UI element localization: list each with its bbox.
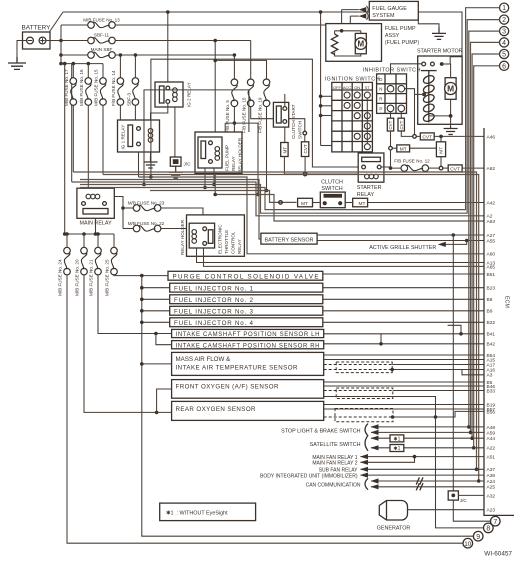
arrow A37: [360, 467, 368, 472]
svg-text:5: 5: [502, 52, 506, 59]
wire A51: [361, 456, 485, 458]
coil starter solenoid: [422, 74, 435, 123]
svg-text:ELECTRONIC: ELECTRONIC: [218, 224, 223, 254]
wire fuse23 feed: [123, 207, 133, 209]
svg-text:INTAKE CAMSHAFT POSITION SENSO: INTAKE CAMSHAFT POSITION SENSOR LH: [176, 332, 320, 338]
wire ground bus 8: [436, 417, 484, 528]
wire f19 out: [266, 107, 268, 191]
svg-text:RELAY: RELAY: [237, 239, 242, 254]
wire injector feed bus: [142, 276, 474, 537]
svg-text:CVT: CVT: [303, 144, 308, 153]
wire maf out A16 dashed: [324, 369, 393, 371]
svg-text:A62: A62: [487, 166, 496, 172]
relay IG 1 RELAY: [118, 120, 160, 152]
node rox dash: [391, 415, 395, 419]
wire inhibitor col feed: [391, 64, 422, 74]
svg-text:N: N: [379, 87, 382, 92]
fuse M/B FUSE No. 21: [89, 234, 102, 296]
wire trunk A2: [150, 191, 297, 203]
wire camLH out B41: [324, 333, 484, 335]
pin starter b: [431, 62, 435, 66]
connector circle 7: [491, 516, 501, 526]
svg-text:ON: ON: [354, 85, 360, 90]
arrow active grille shutter: [438, 242, 446, 247]
wire inhibitor P col1: [390, 111, 392, 118]
box starter motor: [418, 56, 462, 124]
wire IG2 coil to J/C: [174, 107, 176, 157]
svg-text:RELAY: RELAY: [231, 156, 236, 171]
fuse M/B FUSE No. 15: [94, 64, 107, 106]
svg-text:F/B FUSE No. 12: F/B FUSE No. 12: [394, 159, 430, 164]
wire trunk 6: [73, 172, 476, 469]
svg-text:M/B FUSE No. 16: M/B FUSE No. 16: [79, 69, 84, 106]
svg-text:REAR OXYGEN SENSOR: REAR OXYGEN SENSOR: [176, 406, 257, 413]
node throttle feed: [194, 216, 198, 220]
svg-text:FUEL INJECTOR No. 1: FUEL INJECTOR No. 1: [174, 285, 254, 292]
box MASS AIR FLOW and INTAKE AIR TEMPERATURE SENSOR: [172, 352, 324, 375]
connector circle 8: [484, 523, 494, 533]
fuse F/B FUSE No. 5: [225, 55, 238, 133]
box MT clutch start: [281, 143, 288, 157]
wire pump internal bottom: [335, 52, 361, 56]
ground battery: [8, 57, 26, 69]
svg-text:A42: A42: [487, 200, 496, 206]
node f5row bundle: [256, 193, 260, 197]
svg-text:M: M: [357, 39, 364, 48]
relay holder fuel pump: [195, 132, 242, 173]
wire IG2 out to IG1: [151, 104, 168, 120]
node fp out a: [203, 186, 207, 190]
note box eyesight: [160, 503, 256, 520]
contacts ignition: [344, 92, 370, 150]
box MT vertical: [436, 142, 445, 157]
svg-text:B22: B22: [487, 320, 496, 326]
svg-text:MAIN FAN RELAY 2: MAIN FAN RELAY 2: [312, 461, 357, 467]
arc fuel gauge 1: [367, 6, 369, 14]
node fb12 junction: [389, 166, 393, 170]
wire SBF-3 to IG1 relay: [134, 105, 136, 120]
svg-text:A25: A25: [487, 485, 496, 491]
node f19 bundle: [265, 189, 269, 193]
wire circle3 to A48: [469, 31, 500, 427]
wire IG1 coil to ground: [150, 152, 152, 156]
wire rox dashed: [324, 416, 393, 418]
wire A46: [434, 135, 484, 137]
wire inhibitor N to solenoid: [404, 89, 414, 135]
box CVT inhibitor 1: [387, 118, 393, 131]
connector circle 6: [500, 61, 509, 70]
wire sbf11 drop: [214, 41, 216, 195]
fuse M/B FUSE No. 17: [64, 64, 77, 106]
motor fuel pump: [355, 33, 367, 53]
svg-text:A3: A3: [487, 373, 493, 379]
wire inj2 out B8: [323, 298, 484, 300]
ground starter: [444, 127, 458, 135]
wire fuel gauge 2: [350, 15, 359, 17]
node row234 d: [82, 232, 86, 236]
wire MT to starter row: [283, 157, 285, 175]
battery: [22, 25, 52, 50]
svg-text:INTAKE AIR TEMPERATURE SENSOR: INTAKE AIR TEMPERATURE SENSOR: [176, 365, 299, 372]
wire throttle out A13: [197, 248, 485, 263]
svg-text:A44: A44: [487, 436, 496, 442]
svg-text:B9: B9: [487, 309, 493, 315]
connector circle 5: [500, 49, 509, 58]
wire A62: [462, 167, 484, 169]
wire ST column link: [366, 98, 368, 144]
wire rox out B57: [324, 408, 484, 410]
wire holder feed b: [233, 123, 235, 137]
relay IG 2 RELAY: [155, 82, 192, 107]
connector circle 2: [500, 15, 509, 24]
arc fuel gauge 2: [367, 12, 369, 20]
wire A59: [371, 431, 484, 433]
wire inj4 feed: [142, 321, 170, 323]
arrow A59: [371, 430, 379, 435]
wire ign row1: [321, 95, 332, 97]
wire cvt1 down: [390, 131, 392, 146]
wire cvt1 to fb12: [391, 150, 402, 168]
node starter feed: [440, 62, 444, 66]
svg-text:CVT: CVT: [422, 135, 432, 141]
box CVT horizontal A46: [420, 133, 434, 141]
wire cam link: [380, 334, 382, 344]
node row234 e: [96, 232, 100, 236]
svg-text:M/B FUSE No. 21: M/B FUSE No. 21: [89, 259, 94, 296]
relay MAIN RELAY: [77, 188, 114, 226]
svg-text:M/B FUSE No. 17: M/B FUSE No. 17: [64, 69, 69, 106]
svg-text:FUEL PUMP: FUEL PUMP: [224, 145, 229, 171]
svg-text:OFF: OFF: [333, 85, 342, 90]
svg-text:MT: MT: [301, 201, 308, 207]
wire f15 out: [251, 107, 305, 132]
svg-text:MT: MT: [438, 147, 444, 154]
node bus f16: [87, 62, 91, 66]
fuse M/B FUSE No. 23: [128, 201, 165, 212]
svg-text:B56: B56: [487, 409, 496, 415]
wire clutch to mtr: [345, 202, 353, 204]
box PURGE CONTROL SOLENOID VALVE: [168, 271, 323, 280]
ground J/C: [169, 166, 183, 178]
connector cvt row: [303, 172, 307, 176]
wire inj3 out B9: [323, 310, 484, 312]
wire holder feed a: [224, 123, 226, 132]
svg-text:A32: A32: [487, 493, 496, 499]
box BATTERY SENSOR: [261, 233, 317, 244]
svg-text:8: 8: [486, 526, 490, 533]
wire starter feed link: [442, 63, 451, 65]
junction J/C immobilizer: [448, 491, 467, 503]
svg-text:A27: A27: [487, 233, 496, 239]
fuse M/B FUSE No. 22: [128, 221, 165, 232]
wire starter feed row y174: [284, 173, 358, 175]
wire fuel gauge 1: [342, 9, 359, 11]
node fuse23 tap: [121, 206, 125, 210]
svg-text:D: D: [379, 77, 382, 82]
connector mt1 left: [389, 146, 393, 150]
svg-text:BATTERY SENSOR: BATTERY SENSOR: [265, 237, 314, 243]
wire mainsbf out: [115, 54, 234, 56]
svg-text:A37: A37: [487, 467, 496, 473]
node c6 A22: [472, 446, 476, 450]
ECM boundary: [484, 128, 514, 515]
box CVT inhibitor 2: [398, 118, 404, 131]
dashed box maf: [336, 362, 392, 373]
wire main relay out bottom: [95, 218, 97, 234]
svg-text:A60: A60: [487, 252, 496, 258]
svg-text:FUEL INJECTOR No. 4: FUEL INJECTOR No. 4: [174, 320, 254, 327]
wire trunk 4: [139, 177, 485, 254]
wire fuse22 to throttle holder: [161, 228, 187, 230]
wire battery minus to ground: [17, 41, 27, 58]
wire CVT to starter row: [304, 157, 306, 175]
wire f5 out: [233, 107, 235, 124]
switch CLUTCH SWITCH: [320, 192, 345, 208]
wire M/B fuse No.13 feed: [61, 24, 88, 26]
svg-text:✱1 : WITHOUT EyeSight: ✱1 : WITHOUT EyeSight: [166, 511, 228, 517]
node inj2 feed: [140, 298, 144, 302]
svg-text:✱1: ✱1: [393, 437, 400, 443]
node over-route 2 join: [142, 183, 146, 187]
wire battery sensor A55: [317, 240, 484, 242]
wire starter solenoid bar: [421, 70, 437, 72]
wire vertical battery bus: [60, 25, 62, 64]
wire maf feed: [142, 363, 172, 365]
wire maf out B54: [324, 354, 484, 356]
svg-text:CVT: CVT: [388, 120, 393, 129]
svg-text:2: 2: [502, 17, 506, 24]
wire css to MT: [284, 127, 286, 142]
wire f5row to bundle: [257, 123, 259, 194]
svg-text:FUEL INJECTOR No. 3: FUEL INJECTOR No. 3: [174, 308, 254, 315]
node sbf11 bundle join: [213, 193, 217, 197]
fuse M/B FUSE No. 20: [75, 234, 88, 296]
svg-text:FRONT OXYGEN (A/F) SENSOR: FRONT OXYGEN (A/F) SENSOR: [176, 384, 280, 391]
wire rox solid link: [393, 411, 484, 417]
wire fan2: [361, 457, 415, 463]
wire pump case ground: [418, 20, 439, 33]
svg-text:CAN COMMUNICATION: CAN COMMUNICATION: [306, 482, 361, 488]
svg-text:FUEL INJECTOR No. 2: FUEL INJECTOR No. 2: [174, 297, 254, 304]
wire diagonal battery to top: [49, 12, 63, 33]
wire inj3 feed: [142, 310, 170, 312]
pin starter a: [422, 62, 426, 66]
svg-text:ECM: ECM: [504, 296, 510, 308]
wire hcvt left link: [416, 135, 420, 137]
wire cvt2 to hcvt: [401, 131, 413, 136]
box FUEL INJECTOR No. 1: [170, 283, 323, 292]
node cam feed: [154, 332, 158, 336]
svg-text:SWITCH: SWITCH: [298, 121, 303, 139]
wire main sbf feed: [61, 54, 88, 56]
generator body: [377, 501, 411, 532]
node bus f17: [72, 62, 76, 66]
svg-text:10: 10: [464, 541, 472, 548]
svg-text:IG 2 RELAY: IG 2 RELAY: [187, 82, 192, 107]
svg-text:4: 4: [502, 40, 506, 47]
box INTAKE CAMSHAFT POSITION SENSOR RH: [172, 341, 324, 350]
box MT clutch right: [353, 198, 368, 207]
svg-text:CLUTCH START: CLUTCH START: [291, 104, 296, 139]
slashes CAN A25: [416, 483, 423, 490]
wire jc ground bus: [453, 235, 490, 521]
svg-text:CVT: CVT: [399, 120, 404, 129]
wire fox out B33 dashed: [324, 390, 393, 392]
wire vmt2 top: [440, 136, 442, 141]
svg-text:ACC: ACC: [343, 85, 352, 90]
node fp out b: [212, 183, 216, 187]
svg-text:J/C: J/C: [184, 162, 192, 167]
svg-text:A16: A16: [487, 367, 496, 373]
ground IG1: [144, 156, 158, 168]
wire maf out A16: [392, 369, 484, 371]
fuse F/B FUSE No. 12: [394, 159, 430, 172]
wire f5 row: [225, 122, 258, 124]
fuse SBF-11: [88, 33, 116, 44]
node IG2 feed: [166, 10, 170, 14]
box FUEL INJECTOR No. 3: [170, 306, 323, 315]
svg-text:✱1: ✱1: [393, 446, 400, 452]
node step B41: [459, 332, 463, 336]
wire fp relay out a: [204, 168, 206, 188]
arrow fan1: [360, 454, 368, 459]
wire fuse16 to main relay: [87, 105, 89, 188]
node inj3 feed: [140, 309, 144, 313]
wire maf out A15: [324, 359, 484, 361]
arrow A22: [371, 445, 379, 450]
connector circle 3: [500, 27, 509, 36]
svg-text:WI-60457: WI-60457: [484, 551, 512, 558]
node f5 row: [233, 121, 237, 125]
box REAR OXYGEN SENSOR: [172, 401, 324, 420]
box INTAKE CAMSHAFT POSITION SENSOR LH: [172, 329, 324, 338]
svg-text:FUEL GAUGE: FUEL GAUGE: [372, 6, 407, 12]
svg-text:IGNITION SWITCH: IGNITION SWITCH: [325, 76, 380, 82]
wire inhibitor P col2: [400, 111, 402, 118]
wire maf out A17 dashed: [324, 364, 393, 366]
wire A24: [371, 480, 484, 482]
svg-text:MASS AIR FLOW &: MASS AIR FLOW &: [176, 356, 232, 363]
node oxygen feed: [155, 411, 159, 415]
wire battery sensor A27: [317, 234, 484, 236]
svg-text:ASSY: ASSY: [385, 33, 400, 39]
svg-text:M/B FUSE No. 25: M/B FUSE No. 25: [105, 259, 110, 296]
svg-text:7: 7: [493, 519, 497, 526]
arrow A48: [371, 424, 379, 429]
wire A38: [361, 474, 485, 476]
wire generator A23: [408, 509, 485, 511]
svg-text:A65: A65: [487, 264, 496, 270]
wire trunk 3: [80, 180, 261, 240]
svg-text:1: 1: [502, 5, 506, 12]
wire circle5 to A44: [472, 54, 499, 438]
svg-text:F/B FUSE No. 15: F/B FUSE No. 15: [242, 97, 247, 133]
switch CLUTCH START SWITCH: [273, 102, 302, 139]
wire bus row y63.6: [61, 63, 103, 65]
wire f15 CVT chain: [304, 135, 306, 142]
relay ELECTRONIC THROTTLE CONTROL RELAY: [189, 223, 214, 248]
wire trunk 5: [103, 175, 479, 482]
node row234 c: [65, 232, 69, 236]
arrow A38: [360, 473, 368, 478]
svg-text:A51: A51: [487, 455, 496, 461]
wire active grille shutter: [446, 241, 467, 245]
node ign row3: [319, 114, 323, 118]
box star1 A44: [390, 435, 404, 443]
wire fp relay out b: [213, 168, 215, 185]
wire ign row6: [321, 145, 332, 147]
node bus-bottom: [59, 62, 63, 66]
node row234: [63, 232, 67, 236]
wire starter motor top: [442, 64, 451, 78]
wire fuel gauge drop 2: [349, 16, 351, 24]
fuse M/B FUSE No. 25: [105, 234, 118, 296]
node inj4 feed: [140, 321, 144, 325]
wire solenoid tap: [415, 93, 427, 95]
node cam link: [379, 342, 383, 346]
wire front oxygen feed: [157, 389, 172, 412]
fuse F/B FUSE No. 14: [111, 53, 124, 106]
svg-text:RELAY HOLDER: RELAY HOLDER: [237, 137, 242, 173]
node trunk A24: [477, 479, 481, 483]
connector fb12 right: [439, 166, 443, 170]
node pump top: [340, 29, 344, 33]
wire camRH feed: [156, 334, 172, 345]
box FUEL INJECTOR No. 4: [170, 318, 323, 327]
wire fuse22 feed: [123, 228, 133, 230]
svg-text:A24: A24: [487, 479, 496, 485]
arrow fuel gauge 2: [359, 14, 367, 19]
node inj1 feed: [140, 286, 144, 290]
relay FUEL PUMP RELAY: [198, 137, 222, 168]
arrow A44: [371, 436, 379, 441]
fuse M/B FUSE No. 24: [58, 234, 71, 296]
box FUEL PUMP ASSY: [326, 24, 420, 62]
wire left drop B: [71, 64, 73, 182]
wire rox out B19: [324, 404, 484, 406]
svg-text:IG 1 RELAY: IG 1 RELAY: [121, 125, 126, 150]
fuse MAIN SBF: [88, 47, 116, 58]
connector circle 10: [463, 538, 473, 548]
wire trunk 1: [80, 20, 500, 214]
wire IG1 out to bundle: [138, 152, 140, 177]
wire mt1 left link: [392, 147, 397, 149]
node over-route join: [149, 175, 153, 179]
svg-text:BODY INTEGRATED UNIT (IMMOBILI: BODY INTEGRATED UNIT (IMMOBILIZER): [260, 473, 358, 479]
box FRONT OXYGEN (A/F) SENSOR: [172, 380, 324, 399]
svg-text:CONTROL: CONTROL: [231, 231, 236, 254]
wire fox out B33: [393, 390, 484, 392]
wire step B41: [448, 325, 461, 334]
wire fox out B5: [324, 381, 484, 383]
brace satellite: [365, 435, 368, 450]
wire row y60.4: [215, 60, 266, 79]
svg-text:M/B FUSE No. 24: M/B FUSE No. 24: [58, 259, 63, 296]
svg-text:3: 3: [502, 29, 506, 36]
node ign row2: [319, 104, 323, 108]
wire over-route to fuel pump holder: [144, 90, 249, 185]
connector hcvt left: [413, 135, 417, 139]
wire inj1 feed: [142, 287, 170, 289]
wire fuse23 to throttle relay: [161, 208, 203, 223]
node row234 b: [94, 232, 98, 236]
wire vmt2 bottom: [440, 157, 442, 167]
wire A25: [371, 486, 484, 488]
wire maf out A17: [392, 364, 484, 366]
svg-text:B33: B33: [487, 388, 496, 394]
wire purge out B51: [323, 273, 484, 275]
box CVT horizontal A62: [448, 165, 462, 173]
